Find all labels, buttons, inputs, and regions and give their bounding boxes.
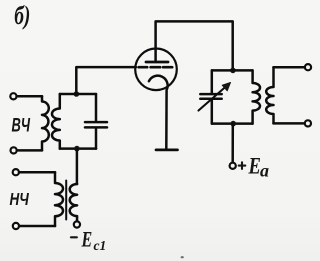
- svg-text:E: E: [248, 152, 261, 179]
- output terminal bottom: [305, 120, 311, 126]
- tank2 top wire: [212, 69, 252, 72]
- anode supply terminal: [230, 163, 236, 169]
- speck: [181, 256, 184, 258]
- wire L1 primary to terminal: [17, 149, 42, 152]
- output bottom wire: [274, 122, 305, 125]
- variable capacitor arrow: [199, 86, 227, 111]
- cathode arc and lead: [149, 76, 168, 149]
- tank bottom wire: [60, 147, 96, 150]
- node grid-tank junction: [74, 91, 80, 97]
- inductor L2 secondary: [70, 184, 77, 221]
- plate bar: [146, 61, 168, 64]
- label +Ea plus sign: [239, 162, 246, 169]
- wire tank to L2 secondary: [76, 149, 79, 184]
- NCh terminal top: [13, 169, 19, 175]
- variable capacitor C2 bottom lead: [211, 100, 214, 123]
- wire terminal to L2 primary: [19, 171, 55, 174]
- capacitor C1 plates: [85, 122, 107, 127]
- transformer T2 core: [65, 181, 67, 220]
- inductor L1 primary (BCh): [42, 96, 49, 150]
- input terminal bottom: [11, 147, 17, 153]
- bias terminal: [74, 221, 80, 227]
- wire terminal to L1 primary: [17, 95, 42, 98]
- node anode-tank junction: [230, 68, 236, 74]
- svg-text:E: E: [81, 228, 93, 252]
- NCh terminal bottom: [13, 223, 19, 229]
- label -Ec1 minus sign: [71, 236, 77, 238]
- svg-text:а: а: [260, 161, 269, 181]
- input terminal top: [10, 93, 16, 99]
- output top wire: [274, 66, 305, 69]
- grid dashed line: [139, 66, 173, 69]
- svg-text:НЧ: НЧ: [10, 190, 30, 209]
- triode V1: [135, 21, 233, 148]
- tank top wire: [60, 93, 96, 96]
- node tank2 bottom junction: [230, 121, 236, 127]
- variable capacitor C2 plates: [200, 94, 221, 99]
- ground: [156, 149, 178, 152]
- wire to anode supply terminal: [231, 124, 234, 163]
- svg-text:с1: с1: [94, 238, 107, 253]
- tank2 bottom wire: [212, 122, 252, 125]
- output terminal top: [305, 64, 311, 70]
- inductor L3 secondary (output): [266, 67, 273, 123]
- inductor L3 primary (tank coil): [253, 70, 260, 123]
- anode lead and wire to tank top: [156, 21, 233, 70]
- svg-text:б): б): [14, 1, 30, 29]
- variable capacitor C2 top lead: [211, 70, 214, 92]
- inductor L2 primary (NCh): [55, 172, 63, 226]
- svg-text:ВЧ: ВЧ: [12, 115, 31, 136]
- node tank bottom junction: [74, 146, 80, 152]
- wire grid to tank: [76, 67, 136, 94]
- wire L2 primary to terminal: [19, 225, 55, 228]
- inductor L1 secondary (tank): [52, 94, 60, 149]
- capacitor C1 top lead: [95, 94, 98, 121]
- capacitor C1 bottom lead: [95, 129, 98, 149]
- envelope: [135, 49, 177, 91]
